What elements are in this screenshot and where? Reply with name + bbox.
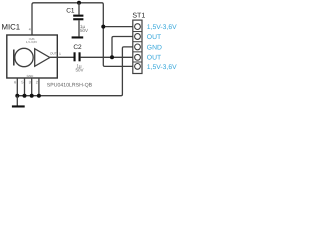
svg-text:6: 6 [14,81,16,85]
svg-text:C1: C1 [66,8,75,15]
pin 2 circle [135,34,141,40]
svg-text:1,5V-3,6V: 1,5V-3,6V [147,24,177,31]
svg-text:GND: GND [27,74,35,78]
node supply junction [101,25,105,29]
microphone capsule symbol [14,48,33,66]
wire supply top rail [32,3,133,67]
capacitor C2 [73,44,83,73]
svg-text:SPU0410LRSH-QB: SPU0410LRSH-QB [47,83,93,89]
mic IC box U MIC1 [7,35,58,78]
svg-text:4: 4 [29,28,31,32]
wire OUT branch to pin 2 [112,37,133,58]
svg-text:GND: GND [147,44,162,51]
svg-text:MIC1: MIC1 [2,22,21,31]
svg-text:1,5-3,6V: 1,5-3,6V [26,40,37,44]
pin 3 circle [135,44,141,50]
wire ground rail to connector pin 3 [17,47,133,96]
svg-text:5: 5 [21,81,23,85]
svg-text:ST1: ST1 [132,13,145,20]
wire to ground symbol [16,96,18,106]
svg-text:1,5V-3,6V: 1,5V-3,6V [147,64,177,71]
pin 4 circle [135,54,141,60]
svg-text:50V: 50V [75,67,83,72]
svg-text:OUT: OUT [147,55,161,62]
node ground rail junctions [15,94,19,98]
capacitor C1 [66,3,88,37]
node C1 tap junction [77,1,81,5]
node OUT junction [110,55,114,59]
ground (C1) [72,36,84,38]
op-amp buffer triangle [35,49,50,67]
svg-text:OUT: OUT [50,51,57,55]
svg-text:OUT: OUT [147,34,161,41]
ground (main) [12,105,25,107]
connector ST1 body [133,20,142,73]
wire OUT from C2 to connector pin 4 [81,56,133,58]
svg-text:1: 1 [59,52,61,56]
svg-text:50V: 50V [80,28,88,33]
svg-text:2: 2 [36,81,38,85]
pin 1 circle [135,24,141,30]
pin 5 circle [135,64,141,70]
svg-text:3: 3 [29,81,31,85]
wire supply branch to pin1 [103,26,133,28]
svg-text:C2: C2 [73,44,82,51]
wire mic pins to ground rail [16,78,18,96]
wire OUT from triangle to C2 [50,56,75,58]
